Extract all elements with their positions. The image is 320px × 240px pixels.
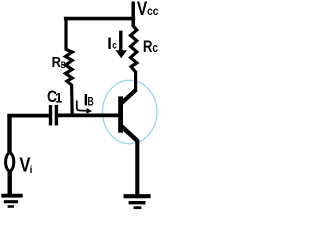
arrow Ic <box>116 31 128 59</box>
resistor RB <box>66 17 73 116</box>
svg-text:i: i <box>30 165 33 176</box>
resistor RC <box>131 19 137 91</box>
svg-text:R: R <box>143 38 153 56</box>
svg-text:c: c <box>112 41 117 52</box>
svg-text:B: B <box>88 95 94 109</box>
wire emitter to ground <box>135 140 139 195</box>
svg-text:V: V <box>137 0 148 20</box>
wire Vcc rail vertical <box>131 2 135 27</box>
transistor Q1 emitter diagonal <box>122 126 138 140</box>
svg-text:c: c <box>152 41 158 55</box>
ground right <box>124 196 151 208</box>
wire input vertical <box>7 114 11 152</box>
arrow IB <box>77 101 92 114</box>
wire base right segment <box>58 114 119 118</box>
svg-text:R: R <box>52 55 62 71</box>
capacitor C1 <box>51 105 57 126</box>
svg-text:B: B <box>61 60 66 71</box>
wire source to ground <box>7 171 11 196</box>
wire top rail horizontal <box>64 17 135 21</box>
ground left <box>1 196 22 207</box>
svg-text:1: 1 <box>55 90 63 105</box>
svg-text:cc: cc <box>147 4 159 18</box>
source Vi <box>6 153 14 171</box>
wire collector diagonal <box>121 90 136 104</box>
transistor Q1 base bar <box>118 96 123 132</box>
transistor circle U1 <box>103 80 157 143</box>
wire base left segment <box>7 114 49 118</box>
